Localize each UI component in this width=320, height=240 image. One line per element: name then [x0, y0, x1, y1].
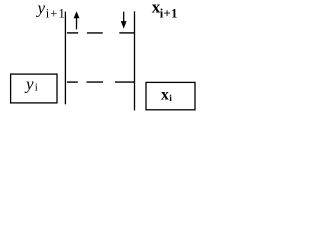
svg-text:y: y: [24, 74, 34, 93]
svg-text:i: i: [169, 94, 172, 104]
wire: top dashed line segment 3: [119, 32, 134, 34]
svg-text:i: i: [35, 82, 38, 94]
wire: top dashed line segment 1: [67, 32, 78, 34]
wire: bottom dashed line segment 1: [67, 81, 78, 83]
svg-text:x: x: [161, 87, 169, 104]
label x_i: [161, 87, 172, 104]
svg-text:i+1: i+1: [46, 7, 65, 21]
box y_i: [11, 74, 57, 103]
box x_i: [146, 82, 195, 109]
svg-text:i+1: i+1: [160, 7, 178, 21]
wire: bottom dashed line segment 2: [87, 81, 104, 83]
wire: right vertical line: [134, 11, 136, 110]
label y_i+1: [36, 0, 65, 21]
label x_i+1: [152, 0, 178, 21]
up arrow: [74, 11, 80, 29]
wire: bottom dashed line segment 3: [115, 81, 135, 83]
svg-text:y: y: [36, 0, 46, 17]
label y_i: [24, 74, 38, 93]
wire: left vertical line: [64, 12, 66, 105]
wire: top dashed line segment 2: [87, 32, 103, 34]
down arrow: [121, 12, 127, 29]
